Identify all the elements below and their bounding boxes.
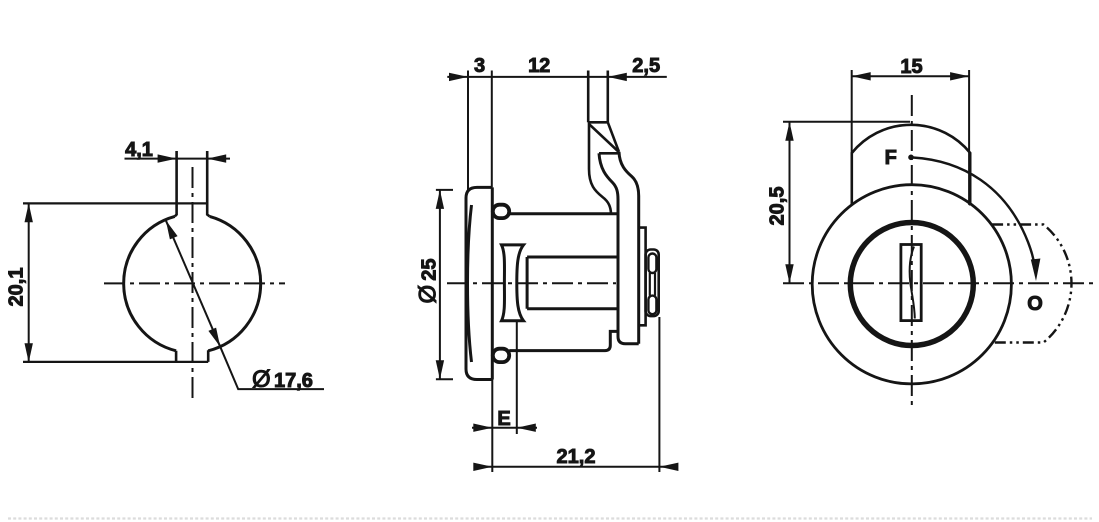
svg-text:2,5: 2,5: [632, 55, 660, 77]
svg-text:15: 15: [900, 56, 922, 78]
svg-text:20,5: 20,5: [767, 187, 789, 226]
svg-text:21,2: 21,2: [557, 446, 596, 468]
svg-text:4,1: 4,1: [125, 139, 153, 161]
svg-text:17,6: 17,6: [274, 370, 313, 392]
svg-text:O: O: [1027, 293, 1043, 315]
svg-text:20,1: 20,1: [6, 268, 28, 307]
svg-text:Ø: Ø: [252, 366, 271, 393]
svg-text:3: 3: [474, 55, 485, 77]
svg-text:12: 12: [528, 55, 550, 77]
svg-text:F: F: [885, 147, 897, 169]
svg-text:E: E: [497, 408, 510, 430]
svg-text:Ø25: Ø25: [415, 259, 442, 304]
